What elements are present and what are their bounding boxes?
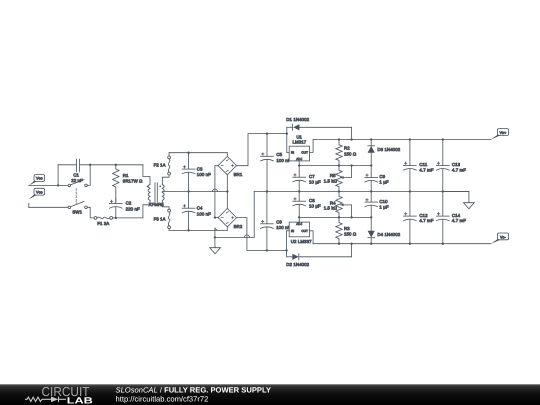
svg-text:1.5 kΩ: 1.5 kΩ	[324, 206, 338, 211]
svg-text:SW1: SW1	[72, 210, 82, 215]
wire U2 IN riser	[285, 231, 287, 257]
capacitor C4	[182, 192, 211, 231]
svg-text:C13: C13	[452, 162, 461, 167]
svg-text:10 µF: 10 µF	[309, 180, 321, 185]
svg-text:Vo+: Vo+	[500, 131, 508, 135]
potentiometer R4	[324, 192, 352, 218]
wire secondary center tap	[162, 189, 228, 193]
wire U2 IN pin	[287, 230, 290, 232]
capacitor C5	[261, 134, 291, 192]
svg-text:C11: C11	[419, 162, 427, 167]
wire D1 to out rail	[350, 127, 352, 140]
wire U1 OUT pin	[310, 140, 314, 153]
bridge rectifier BR2	[218, 208, 243, 229]
capacitor C2	[109, 198, 140, 218]
svg-text:C7: C7	[309, 174, 315, 179]
CircuitLab logo	[25, 384, 93, 405]
fuse F1	[94, 217, 113, 226]
svg-text:D1 1N4002: D1 1N4002	[286, 117, 309, 122]
svg-text:9R17W Ω: 9R17W Ω	[123, 178, 143, 183]
wire primary bottom lead	[143, 200, 150, 218]
switch SW1 pole A	[68, 180, 87, 187]
capacitor C14	[436, 192, 466, 244]
svg-text:D4 1N4002: D4 1N4002	[377, 232, 400, 237]
svg-text:LM317: LM317	[293, 139, 307, 144]
footer bar	[0, 384, 540, 405]
wire positive out rail	[313, 138, 491, 140]
svg-text:F3 1A: F3 1A	[154, 216, 166, 221]
capacitor C9	[365, 166, 389, 192]
wire mid ground rail	[254, 190, 469, 237]
transformer XFMR5	[147, 183, 165, 207]
svg-text:4.7 mF: 4.7 mF	[419, 218, 433, 223]
svg-text:C14: C14	[452, 213, 461, 218]
wire U1 ADJ pin	[298, 161, 300, 166]
svg-text:4.7 mF: 4.7 mF	[419, 167, 433, 172]
svg-text:150 Ω: 150 Ω	[344, 152, 357, 157]
svg-text:F1 3A: F1 3A	[97, 221, 109, 226]
svg-text:C5: C5	[276, 152, 282, 157]
wire U2 ADJ pin	[298, 217, 300, 222]
diode D3 1N4002	[368, 140, 401, 166]
node Vcc terminal 2 (flag)	[29, 188, 45, 199]
svg-text:D2 1N4002: D2 1N4002	[286, 262, 309, 267]
wire U1 IN pin	[287, 151, 289, 153]
wire U1 IN riser	[286, 127, 288, 152]
node Vo+ terminal (flag)	[491, 129, 509, 140]
svg-text:1.5 kΩ: 1.5 kΩ	[324, 179, 338, 184]
svg-text:100 nF: 100 nF	[197, 211, 211, 216]
svg-text:BR2: BR2	[234, 224, 243, 229]
ground (right)	[464, 203, 475, 209]
svg-text:150 Ω: 150 Ω	[344, 232, 357, 237]
capacitor C10	[365, 192, 389, 218]
resistor R1	[113, 165, 143, 204]
bridge rectifier BR1	[218, 153, 243, 178]
resistor R3	[336, 217, 357, 243]
wire ADJ+ rail	[298, 164, 372, 166]
capacitor C12	[404, 192, 434, 244]
svg-text:Vo-: Vo-	[500, 235, 507, 239]
svg-text:OUT: OUT	[301, 229, 308, 233]
svg-text:C9: C9	[379, 174, 385, 179]
wire Vcc1 to SW1a	[29, 184, 68, 186]
wire secondary bottom lead	[162, 200, 169, 209]
ground (left)	[210, 246, 221, 253]
svg-text:4.7 mF: 4.7 mF	[452, 218, 466, 223]
wire primary top lead	[143, 165, 150, 185]
svg-text:1 µF: 1 µF	[379, 205, 388, 210]
wire BR2 bottom lead	[226, 227, 228, 231]
wire BR2 output lead	[237, 218, 287, 252]
svg-text:IN: IN	[291, 151, 294, 155]
svg-text:C12: C12	[419, 213, 428, 218]
wire BR1 minus to ground rail	[226, 175, 228, 209]
svg-text:220 nF: 220 nF	[126, 206, 140, 211]
wire secondary top lead	[162, 175, 169, 184]
svg-text:Vcc: Vcc	[36, 190, 43, 194]
wire SW1a to top rail	[87, 166, 90, 185]
svg-text:R1: R1	[123, 173, 129, 178]
wire top rail C1 to XFMR	[80, 164, 143, 166]
wire bottom rail (F3 to BR2)	[169, 228, 227, 231]
svg-text:100 nF: 100 nF	[276, 225, 290, 230]
svg-text:C2: C2	[126, 201, 132, 206]
svg-text:R4: R4	[330, 200, 336, 205]
wire ADJ- rail	[298, 216, 372, 218]
svg-text:D3 1N4002: D3 1N4002	[377, 147, 400, 152]
svg-text:U2 LM337: U2 LM337	[291, 239, 312, 244]
capacitor C13	[436, 140, 466, 192]
capacitor C3	[182, 153, 211, 192]
capacitor C8	[293, 192, 321, 218]
svg-text:Vcc: Vcc	[36, 177, 43, 181]
svg-text:SLOsonCAL / FULLY REG. POWER S: SLOsonCAL / FULLY REG. POWER SUPPLY	[116, 385, 271, 394]
svg-text:F2 1A: F2 1A	[154, 162, 166, 167]
svg-text:100 nF: 100 nF	[276, 158, 290, 163]
wire ground rail east	[443, 192, 469, 203]
title and url	[116, 385, 271, 403]
potentiometer R5	[324, 166, 352, 192]
op-amp U1 LM317	[289, 135, 309, 162]
svg-text:10 µF: 10 µF	[309, 204, 321, 209]
fuse F2	[154, 153, 171, 175]
svg-text:1 µF: 1 µF	[379, 180, 388, 185]
fuse F3	[154, 209, 171, 230]
wire ground branch	[214, 228, 216, 246]
svg-text:100 nF: 100 nF	[197, 172, 211, 177]
wire ground rail west	[215, 235, 254, 238]
wire top-left riser	[57, 165, 59, 186]
svg-text:OUT: OUT	[301, 151, 308, 155]
capacitor C6	[261, 192, 291, 251]
diode D4 1N4002	[368, 217, 401, 243]
wire BR1 plus riser	[237, 132, 287, 165]
svg-text:IN: IN	[291, 229, 294, 233]
switch SW1 pole B	[68, 189, 87, 215]
wire D2 to out rail	[350, 243, 352, 257]
wire F1 to XFMR bottom	[113, 217, 143, 219]
svg-text:C6: C6	[276, 219, 282, 224]
node Vcc terminal 1 (flag)	[29, 175, 45, 186]
svg-text:C10: C10	[379, 199, 388, 204]
svg-text:C3: C3	[197, 166, 203, 171]
svg-text:LAB: LAB	[67, 395, 94, 405]
svg-text:http://circuitlab.com/cf37r72: http://circuitlab.com/cf37r72	[116, 394, 209, 403]
capacitor C7	[293, 166, 321, 192]
svg-text:C4: C4	[197, 206, 203, 211]
svg-text:R5: R5	[330, 173, 336, 178]
capacitor C1	[71, 159, 83, 183]
wire Vcc2 to SW1b	[29, 203, 68, 207]
wire top rail (secondary to BR1)	[169, 152, 227, 154]
wire BR2 AC left	[214, 216, 219, 218]
svg-text:C8: C8	[309, 198, 315, 203]
wire negative out rail	[313, 243, 491, 245]
svg-text:R2: R2	[344, 146, 350, 151]
node Vo- terminal (flag)	[491, 233, 509, 244]
wire BR1 AC riser	[215, 166, 219, 218]
capacitor C11	[404, 140, 434, 192]
diode D2 1N4002	[286, 254, 351, 268]
op-amp U2 LM337	[289, 222, 312, 244]
svg-text:BR1: BR1	[234, 172, 243, 177]
svg-text:4.7 mF: 4.7 mF	[452, 167, 466, 172]
resistor R2	[336, 140, 357, 166]
diode D1 1N4002	[286, 117, 351, 130]
wire top rail left of C1	[58, 164, 76, 166]
wire U2 OUT pin	[310, 231, 314, 244]
svg-text:R3: R3	[344, 226, 350, 231]
wire SW1b to F1	[87, 207, 94, 218]
